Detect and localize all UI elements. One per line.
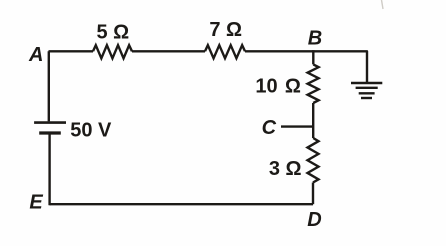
svg-text:C: C bbox=[262, 117, 277, 139]
svg-text:B: B bbox=[308, 28, 322, 50]
resistor R1 5 ohm body bbox=[93, 45, 132, 58]
svg-text:A: A bbox=[28, 44, 43, 66]
wire node B to ground stem bbox=[313, 51, 367, 82]
svg-text:E: E bbox=[29, 191, 43, 213]
wire bottom D to E bbox=[50, 203, 314, 205]
resistor R4 3 ohm body (vertical) bbox=[308, 138, 319, 183]
wire node B down to R3 bbox=[312, 50, 314, 64]
wire A to R1 (top left segment) bbox=[49, 50, 94, 52]
battery V1 50V plates bbox=[34, 123, 66, 133]
ground symbol bbox=[351, 83, 382, 98]
resistor R3 10 ohm body (vertical) bbox=[308, 64, 319, 103]
svg-text:10: 10 bbox=[255, 75, 277, 97]
svg-text:50 V: 50 V bbox=[70, 119, 112, 141]
wire R3 to R4 through node C bbox=[312, 103, 314, 138]
wire R1 to R2 bbox=[132, 50, 205, 52]
wire R2 to node B bbox=[245, 50, 313, 52]
wire R4 to node D bbox=[312, 183, 314, 205]
resistor R2 7 ohm body bbox=[205, 45, 245, 58]
svg-text:3 Ω: 3 Ω bbox=[269, 158, 302, 180]
wire E up to battery bbox=[48, 134, 50, 205]
svg-text:7 Ω: 7 Ω bbox=[209, 19, 242, 41]
svg-text:D: D bbox=[307, 209, 321, 231]
wire C stub bbox=[281, 125, 313, 127]
svg-text:Ω: Ω bbox=[285, 75, 301, 97]
wire battery to A bbox=[48, 51, 50, 121]
svg-text:5 Ω: 5 Ω bbox=[96, 22, 129, 44]
